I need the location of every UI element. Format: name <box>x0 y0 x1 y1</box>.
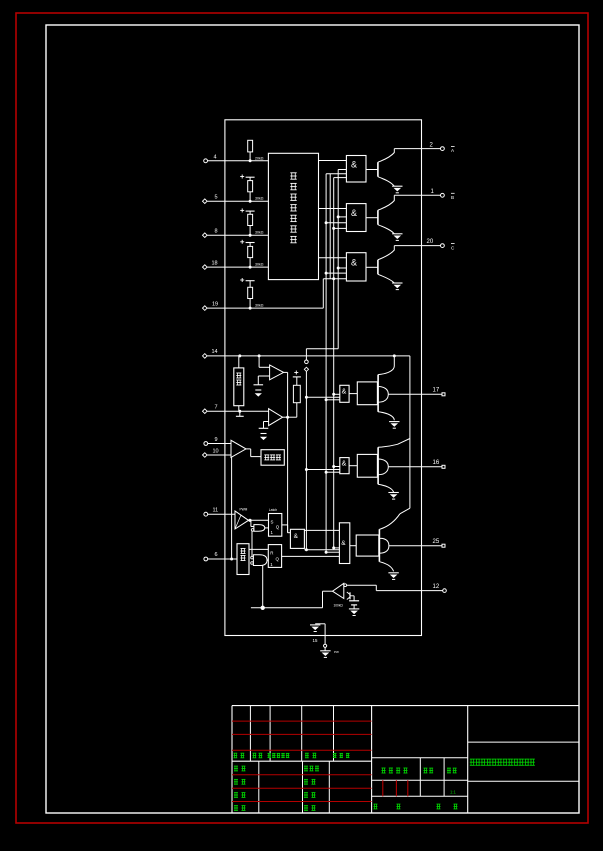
ground G1 emitter <box>392 185 402 187</box>
ground q5 <box>388 492 398 494</box>
bus line B <box>326 173 346 175</box>
bus line A jog <box>306 348 338 350</box>
bus line A lower <box>305 371 307 549</box>
pin 20 terminal <box>441 244 445 248</box>
stage mark area grid <box>372 757 468 759</box>
resistor R2 30k with +V tap <box>240 176 244 178</box>
resistor R4 30k with +V tap <box>240 241 244 243</box>
wire a5 out to pin12 <box>347 584 377 586</box>
ground q6 <box>388 572 398 574</box>
pin 8 terminal <box>203 233 208 238</box>
drawing title text <box>470 758 475 760</box>
AND gate G4 <box>340 385 349 402</box>
comparator A5 mirrored <box>333 583 344 598</box>
svg-text:&: & <box>351 160 357 170</box>
pin 5 terminal <box>203 199 208 204</box>
svg-text:20: 20 <box>427 239 434 245</box>
wire pin8 <box>207 234 268 236</box>
driver Q5 body <box>357 454 377 477</box>
title block outer <box>232 705 579 707</box>
svg-text:9: 9 <box>215 437 218 443</box>
svg-text:PWM: PWM <box>240 508 248 512</box>
wire pin11 <box>208 513 235 515</box>
pin 1 terminal <box>441 193 445 197</box>
wire a3 out <box>246 448 251 450</box>
wire a2 in- <box>264 421 269 423</box>
red signature lines <box>232 774 372 776</box>
resistor R5 30k with +V tap <box>240 279 244 281</box>
wire g5 inputs <box>332 465 335 468</box>
wire register out1 <box>319 160 347 162</box>
node marker diamond <box>304 367 308 371</box>
wire pin5 <box>207 200 268 202</box>
NAND gate GA <box>251 529 254 532</box>
wire a4 down <box>250 520 252 526</box>
pin 2 terminal <box>441 147 445 151</box>
svg-text:7: 7 <box>215 405 218 411</box>
wire a5 input loop <box>323 590 333 592</box>
svg-text:30kΩ: 30kΩ <box>255 304 264 308</box>
wire gb left rail <box>251 531 253 556</box>
svg-text:4: 4 <box>214 155 217 161</box>
wire register out3 <box>319 257 347 259</box>
svg-text:19: 19 <box>212 302 218 308</box>
pin 19 terminal <box>203 306 208 311</box>
wire pin2 <box>394 148 440 150</box>
driver Q6 body <box>356 535 379 556</box>
ground symbol pin15 <box>310 624 320 626</box>
transistor pair Q1 <box>366 169 378 171</box>
svg-text:&: & <box>294 533 299 540</box>
approval labels <box>304 765 308 767</box>
transistor Q7 small <box>349 592 351 599</box>
wire pin6 <box>208 558 237 560</box>
op-amp A2 <box>269 409 283 426</box>
pin 6 terminal <box>204 557 208 561</box>
flip-flop FF1 <box>269 514 282 537</box>
svg-text:&: & <box>341 540 346 547</box>
svg-text:8: 8 <box>215 229 218 235</box>
svg-text:Q: Q <box>276 557 280 562</box>
transistor pair Q3 <box>366 266 378 268</box>
wire pin4 <box>208 160 269 162</box>
svg-text:18: 18 <box>212 261 218 267</box>
capacitor-ground a2 <box>263 422 265 429</box>
title block top grid <box>249 706 251 762</box>
pin 18 terminal <box>203 265 208 270</box>
svg-text:30kΩ: 30kΩ <box>255 197 264 201</box>
wire g5 out <box>349 465 357 467</box>
wire g4 out <box>349 393 357 395</box>
pin 10 terminal <box>203 453 208 458</box>
svg-text:R: R <box>270 551 273 556</box>
capacitor-ground a1 <box>257 376 259 385</box>
stage mark labels <box>382 767 386 769</box>
bus line C <box>334 177 347 179</box>
AND gate G6 tall <box>339 523 349 564</box>
pin 15 terminal <box>324 644 327 647</box>
svg-text:12: 12 <box>433 584 440 590</box>
pin 16 terminal <box>442 465 445 468</box>
wire a1 in+ <box>258 356 260 367</box>
wire pin9 <box>208 443 231 445</box>
wire g4 inputs <box>332 393 335 396</box>
wire g7 out <box>304 529 339 531</box>
wire pin25 <box>389 545 442 547</box>
wire pin7 <box>207 410 269 412</box>
wire g6 out <box>350 545 356 547</box>
svg-text:PW: PW <box>334 650 339 654</box>
pin 4 terminal <box>204 159 208 163</box>
revision row labels <box>234 752 238 754</box>
transistor pair Q2 <box>366 217 378 219</box>
svg-text:20kΩ: 20kΩ <box>255 156 264 160</box>
svg-text:14: 14 <box>212 349 218 355</box>
svg-text:Latch: Latch <box>269 508 277 512</box>
op-amp A1 <box>270 365 284 380</box>
ground c1 <box>349 608 359 610</box>
pin 11 terminal <box>204 512 208 516</box>
svg-text:100kΩ: 100kΩ <box>334 604 344 608</box>
svg-text:S: S <box>271 520 274 525</box>
bus line E short <box>329 174 331 279</box>
wire a1 out <box>284 371 288 373</box>
pin 25 terminal <box>442 544 445 547</box>
collector wire q5 <box>398 439 410 445</box>
svg-text:1:1: 1:1 <box>450 790 456 795</box>
bus line D <box>338 169 346 171</box>
wire down to pin6 node <box>231 457 233 559</box>
svg-text:11: 11 <box>213 508 219 514</box>
red revision lines <box>232 720 372 722</box>
wire pin15 <box>324 624 326 644</box>
wire pin14 supply rail <box>207 355 410 357</box>
wire g6 inputs <box>332 546 335 549</box>
divider block U4 <box>237 544 249 575</box>
sheet count labels <box>374 803 378 805</box>
collector rail <box>409 356 411 508</box>
svg-text:25: 25 <box>433 539 440 545</box>
internal ground net <box>315 623 325 625</box>
wire pin10 <box>207 454 231 456</box>
ground tick under node <box>239 411 241 416</box>
wire ff2 out <box>282 555 340 557</box>
pin 7 terminal <box>203 409 208 414</box>
svg-text:6: 6 <box>215 552 218 558</box>
node marker circle <box>305 360 309 364</box>
stage mark red ticks <box>382 780 384 796</box>
wire register out2 <box>319 208 347 210</box>
svg-text:&: & <box>342 389 347 396</box>
ground q4 <box>389 421 399 423</box>
pull-up resistor R6 <box>294 372 298 374</box>
wire pin1 <box>394 194 440 196</box>
collector wire q6 <box>400 508 410 514</box>
comparator A4 <box>235 511 249 529</box>
pin 17 terminal <box>442 393 445 396</box>
title block bottom-left grid <box>258 761 260 813</box>
wire pin19 riser <box>322 279 324 308</box>
emitter wire q6 <box>379 562 393 572</box>
svg-text:&: & <box>342 461 347 468</box>
AND gate G5 <box>340 458 349 474</box>
op-amp A3 <box>231 440 246 457</box>
wire a2 out <box>283 416 297 418</box>
emitter wire q4 <box>378 412 394 420</box>
wire pin18 <box>207 266 268 268</box>
designer labels <box>234 765 238 767</box>
svg-text:B: B <box>451 195 454 200</box>
wire pin17 <box>388 393 442 395</box>
wire a1 in- <box>258 375 269 377</box>
wire ff2 bottom drop <box>262 566 264 608</box>
driver Q4 body <box>357 382 377 405</box>
wire ff1 out <box>282 524 288 526</box>
ground G3 emitter <box>392 282 402 284</box>
NAND gate GB <box>251 556 254 559</box>
wire pin20 <box>394 245 440 247</box>
svg-text:30kΩ: 30kΩ <box>255 231 264 235</box>
oscillator block U3 <box>261 450 284 466</box>
svg-text:5: 5 <box>215 195 218 201</box>
resistor R3 30k with +V tap <box>240 209 244 211</box>
wire divider out <box>249 548 268 550</box>
AND gate G3 <box>346 253 366 281</box>
svg-text:&: & <box>351 208 357 218</box>
AND gate G7 <box>290 529 304 548</box>
wire pin16 <box>388 466 442 468</box>
ground G2 emitter <box>392 233 402 235</box>
collector wire q4 <box>393 356 395 366</box>
svg-text:10: 10 <box>213 449 219 455</box>
svg-text:30kΩ: 30kΩ <box>255 263 264 267</box>
wire pin19 <box>207 307 323 309</box>
ground external <box>320 650 330 652</box>
pin 14 terminal <box>203 354 208 359</box>
svg-text:17: 17 <box>433 388 440 394</box>
AND gate G1 <box>346 156 366 183</box>
svg-text:15: 15 <box>313 638 318 643</box>
flip-flop FF2 <box>268 545 281 568</box>
pin 12 terminal <box>443 589 447 593</box>
register block U1 <box>268 153 318 279</box>
emitter wire q5 <box>378 484 394 492</box>
IC boundary rectangle <box>225 120 422 636</box>
AND gate G2 <box>346 204 366 232</box>
pin 9 terminal <box>204 442 208 446</box>
resistor R1 20k <box>248 140 253 152</box>
drawing number cell divider <box>468 741 579 743</box>
node a4 out <box>248 519 251 522</box>
svg-text:16: 16 <box>433 460 440 466</box>
svg-text:&: & <box>351 258 357 268</box>
timing capacitor C1 <box>353 596 355 601</box>
svg-text:Q: Q <box>276 525 280 530</box>
reference block U2 <box>238 356 240 368</box>
node big junction <box>261 606 265 610</box>
